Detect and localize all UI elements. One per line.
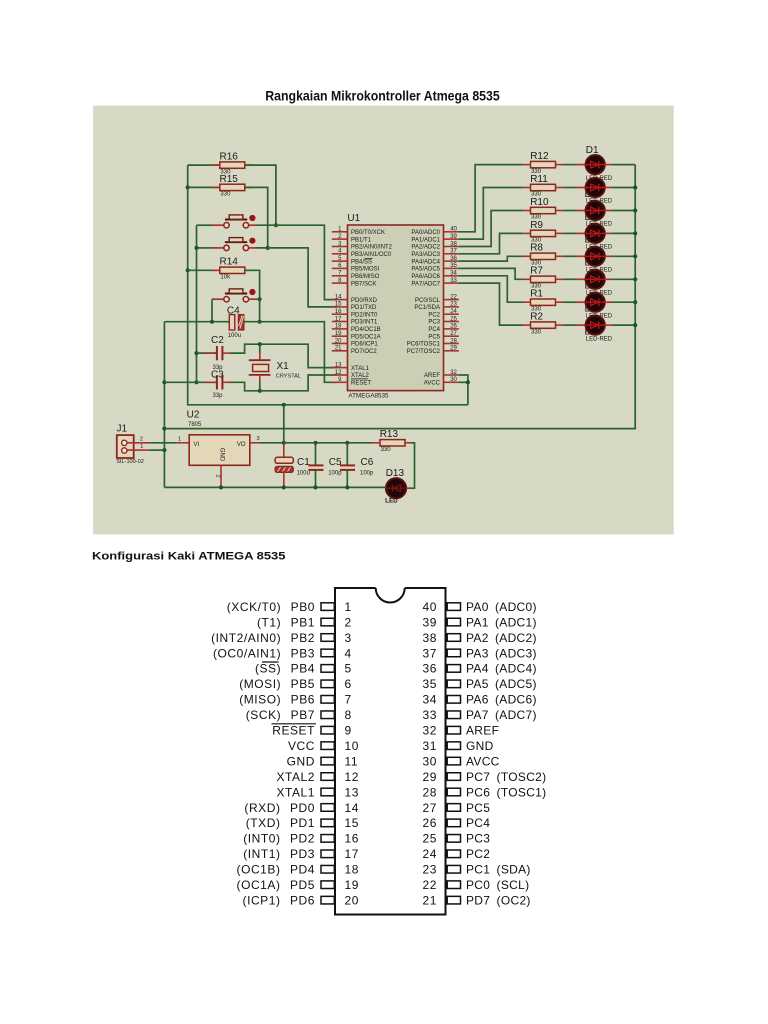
U1 pin 17 stub bbox=[332, 321, 348, 323]
label C3 bbox=[211, 370, 224, 381]
svg-text:40: 40 bbox=[422, 600, 437, 614]
pin number 3 bbox=[338, 241, 342, 247]
value 330 of R10 bbox=[531, 215, 542, 221]
svg-text:1: 1 bbox=[140, 444, 143, 450]
push button SW2 bbox=[224, 238, 256, 251]
value SIL-100-02 of J1 bbox=[116, 459, 144, 465]
DIP pin 24 row: PC2 bbox=[422, 847, 490, 861]
label X1 bbox=[277, 361, 290, 372]
label D4 (behind LED) bbox=[585, 235, 598, 246]
wire U1 pin 37 to R9 bbox=[459, 233, 523, 253]
wire D6 anode stub bbox=[576, 278, 586, 280]
pin name PB0/T0/XCK bbox=[351, 230, 385, 236]
wire ground left vertical bbox=[163, 322, 165, 488]
wire U1 pin 38 to R10 bbox=[459, 211, 523, 247]
pin name PA6/ADC6 bbox=[411, 274, 440, 280]
svg-text:XTAL1: XTAL1 bbox=[276, 785, 315, 799]
svg-text:(OC1B) PD4: (OC1B) PD4 bbox=[237, 863, 315, 877]
pin number 36 bbox=[450, 256, 457, 262]
pin number 2 of J1 bbox=[140, 437, 143, 443]
DIP pin 8 row: (SCK) PB7 bbox=[246, 708, 352, 722]
U1 pin 40 stub bbox=[444, 231, 459, 233]
wire D8 to LED bus bbox=[613, 324, 636, 326]
svg-text:13: 13 bbox=[345, 785, 360, 799]
wire U1 pin 36 to R8 bbox=[459, 256, 523, 261]
wire D2 anode stub bbox=[576, 187, 586, 189]
wire U1 pin 34 to R1 bbox=[459, 276, 523, 302]
wire button2 left bbox=[197, 247, 213, 249]
value 100u of C4 bbox=[228, 333, 241, 339]
pin name PA4/ADC4 bbox=[411, 259, 440, 265]
wire D3 cathode stub bbox=[605, 210, 613, 212]
DIP pin 23 row: PC1 (SDA) bbox=[422, 863, 530, 877]
wire R16 right down to button 1 node bbox=[245, 165, 276, 225]
svg-text:PC4: PC4 bbox=[466, 816, 490, 830]
svg-text:27: 27 bbox=[422, 801, 437, 815]
pin name XTAL2 bbox=[351, 373, 370, 379]
pin number 32 bbox=[450, 370, 457, 376]
DIP pin 27 row: PC5 bbox=[422, 801, 490, 815]
junction AVCC bbox=[466, 380, 470, 384]
svg-text:100p: 100p bbox=[328, 471, 342, 477]
U1 pin 32 stub bbox=[444, 374, 459, 376]
wire button3 right stub bbox=[249, 298, 256, 300]
junction R15 / button2 wire bbox=[266, 246, 270, 250]
DIP pin 37 row: PA3 (ADC3) bbox=[422, 646, 536, 660]
svg-text:11: 11 bbox=[345, 754, 359, 768]
U1 pin 34 stub bbox=[444, 275, 459, 277]
svg-text:C6: C6 bbox=[361, 457, 374, 468]
label R13 bbox=[380, 429, 399, 440]
wire button1 to PD0 pin14 bbox=[257, 225, 338, 299]
wire D1 cathode stub bbox=[605, 164, 613, 166]
pin name PD2/INT0 bbox=[351, 312, 378, 318]
pin name PB6/MISO bbox=[351, 274, 380, 280]
svg-text:PD6/ICP1: PD6/ICP1 bbox=[351, 342, 378, 348]
pin name PA3/ADC3 bbox=[411, 252, 440, 258]
pin number 26 bbox=[450, 324, 457, 330]
svg-text:VCC: VCC bbox=[288, 739, 315, 753]
svg-text:33: 33 bbox=[422, 708, 437, 722]
svg-text:GND: GND bbox=[219, 448, 225, 462]
svg-text:PB0/T0/XCK: PB0/T0/XCK bbox=[351, 230, 385, 236]
value 100p of C5 bbox=[328, 471, 342, 477]
pin name PD6/ICP1 bbox=[351, 342, 378, 348]
value 330 of R1 bbox=[531, 306, 542, 312]
svg-text:PC7 (TOSC2): PC7 (TOSC2) bbox=[466, 770, 546, 784]
DIP pin 12 row: XTAL2 bbox=[276, 770, 359, 784]
pin number 22 bbox=[450, 294, 457, 300]
svg-text:R13: R13 bbox=[380, 429, 399, 440]
pin name PD7/OC2 bbox=[351, 349, 377, 355]
value 330 of R11 bbox=[531, 192, 542, 198]
junction buttons rail / button2 bbox=[194, 246, 198, 250]
svg-text:(T1) PB1: (T1) PB1 bbox=[257, 615, 315, 629]
value LED of D13 bbox=[385, 497, 398, 504]
wire D1 anode stub bbox=[576, 164, 586, 166]
label R11 bbox=[530, 174, 548, 185]
pin number 30 bbox=[450, 377, 457, 383]
pin name PC3 bbox=[428, 320, 440, 326]
wire R7 to D6 bbox=[563, 278, 576, 280]
svg-text:31: 31 bbox=[422, 739, 437, 753]
value 100p of C6 bbox=[360, 471, 374, 477]
pin number 16 bbox=[335, 309, 342, 315]
wire button2 right stub bbox=[249, 247, 257, 249]
svg-text:(INT1) PD3: (INT1) PD3 bbox=[243, 847, 315, 861]
svg-text:12: 12 bbox=[335, 370, 342, 376]
pin number 1 of J1 bbox=[140, 444, 143, 450]
svg-text:16: 16 bbox=[345, 832, 360, 846]
svg-text:25: 25 bbox=[450, 316, 457, 322]
svg-text:R2: R2 bbox=[530, 312, 543, 323]
DIP pin 10 row: VCC bbox=[288, 739, 359, 753]
pin name PB7/SCK bbox=[351, 281, 376, 287]
DIP pin 22 row: PC0 (SCL) bbox=[422, 878, 529, 892]
capacitor C1 bbox=[275, 443, 293, 488]
resistor R15 bbox=[212, 184, 253, 190]
LED D2 bbox=[586, 178, 605, 197]
capacitor C4 bbox=[229, 315, 244, 330]
svg-text:PC1 (SDA): PC1 (SDA) bbox=[466, 863, 531, 877]
svg-text:X1: X1 bbox=[277, 361, 290, 372]
svg-text:J1: J1 bbox=[117, 423, 128, 434]
svg-text:LED-RED: LED-RED bbox=[586, 336, 613, 342]
resistor R13 bbox=[372, 440, 413, 446]
resistor R7 bbox=[523, 276, 564, 282]
DIP pin 39 row: PA1 (ADC1) bbox=[422, 615, 536, 629]
junction ground / U2 GND bbox=[219, 485, 223, 489]
DIP pin 32 row: AREF bbox=[422, 724, 499, 738]
pin name PC0/SCL bbox=[415, 298, 441, 304]
svg-text:17: 17 bbox=[345, 847, 360, 861]
pin name PA5/ADC5 bbox=[411, 267, 440, 273]
svg-text:AREF: AREF bbox=[424, 373, 440, 379]
pin number 14 bbox=[335, 294, 342, 300]
wire D5 cathode stub bbox=[605, 255, 613, 257]
wire R16 left bbox=[188, 164, 220, 166]
U1 pin 9 stub bbox=[332, 381, 348, 383]
capacitor C2 bbox=[205, 346, 231, 360]
pin number 38 bbox=[450, 241, 457, 247]
DIP pin 17 row: (INT1) PD3 bbox=[243, 847, 359, 861]
svg-text:PC5: PC5 bbox=[466, 801, 490, 815]
DIP pin 18 row: (OC1B) PD4 bbox=[237, 863, 360, 877]
svg-text:PC0 (SCL): PC0 (SCL) bbox=[466, 878, 529, 892]
pin name PB1/T1 bbox=[351, 237, 372, 243]
svg-text:20: 20 bbox=[345, 893, 360, 907]
wire R15 left bbox=[188, 186, 220, 188]
DIP pin 21 row: PD7 (OC2) bbox=[422, 893, 530, 907]
junction LED bus bbox=[633, 231, 637, 235]
push button SW1 bbox=[224, 215, 256, 228]
svg-text:R1: R1 bbox=[530, 289, 543, 300]
overline SS bbox=[365, 258, 373, 260]
label D1 bbox=[586, 145, 599, 156]
pin number 17 bbox=[335, 316, 342, 322]
junction VO rail / C5 bbox=[313, 441, 317, 445]
DIP pin 25 row: PC3 bbox=[422, 832, 490, 846]
wire C2 left bbox=[197, 352, 217, 354]
svg-text:(SCK) PB7: (SCK) PB7 bbox=[246, 708, 315, 722]
label D2 (behind LED) bbox=[585, 189, 598, 200]
svg-text:PA4 (ADC4): PA4 (ADC4) bbox=[466, 662, 537, 676]
wire R15 right down to button 2 node bbox=[245, 187, 268, 248]
label J1 bbox=[117, 423, 128, 434]
wire D6 cathode stub bbox=[605, 278, 613, 280]
pin number 19 bbox=[335, 331, 342, 337]
DIP pin 19 row: (OC1A) PD5 bbox=[237, 878, 360, 892]
U1 pin 29 stub bbox=[444, 350, 459, 352]
U1 pin 25 stub bbox=[444, 321, 459, 323]
label C4 bbox=[227, 306, 240, 317]
svg-text:38: 38 bbox=[450, 241, 457, 247]
svg-text:35: 35 bbox=[450, 263, 457, 269]
wire D4 anode stub bbox=[576, 232, 586, 234]
svg-text:100u: 100u bbox=[228, 333, 241, 339]
svg-text:26: 26 bbox=[450, 324, 457, 330]
resistor R2 bbox=[523, 322, 564, 328]
LED D8 bbox=[586, 316, 605, 335]
DIP pin 31 row: GND bbox=[422, 739, 493, 753]
value 330 of R12 bbox=[531, 169, 542, 175]
J1 pin 1 stub bbox=[127, 449, 149, 451]
DIP pin 2 row: (T1) PB1 bbox=[257, 615, 352, 629]
U1 pin 30 stub bbox=[444, 381, 459, 383]
svg-text:32: 32 bbox=[422, 724, 437, 738]
junction VO rail / C1 bbox=[282, 441, 286, 445]
svg-text:XTAL2: XTAL2 bbox=[276, 770, 315, 784]
svg-text:14: 14 bbox=[335, 294, 342, 300]
DIP pin 6 row: (MOSI) PB5 bbox=[239, 677, 352, 691]
junction VCC rail / 7805 output node bbox=[282, 403, 286, 407]
svg-text:17: 17 bbox=[335, 316, 342, 322]
svg-text:ATMEGA8535: ATMEGA8535 bbox=[348, 393, 389, 400]
svg-text:24: 24 bbox=[450, 309, 457, 315]
label D13 bbox=[386, 468, 405, 479]
label D3 (behind LED) bbox=[585, 212, 598, 223]
svg-text:PC3: PC3 bbox=[466, 832, 490, 846]
capacitor C3 bbox=[205, 375, 231, 389]
DIP pin 28 row: PC6 (TOSC1) bbox=[422, 785, 546, 799]
pin name AREF bbox=[424, 373, 440, 379]
U1 pin 24 stub bbox=[444, 313, 459, 315]
svg-text:PC1/SDA: PC1/SDA bbox=[414, 305, 440, 311]
wire R14 right down to C4 node bbox=[245, 270, 260, 321]
label R16 bbox=[220, 152, 239, 163]
U2 pin 3 stub bbox=[250, 442, 260, 444]
DIP pin 34 row: PA6 (ADC6) bbox=[422, 693, 536, 707]
wire D6 to LED bus bbox=[613, 278, 636, 280]
svg-text:1: 1 bbox=[178, 436, 181, 442]
svg-text:20: 20 bbox=[335, 338, 342, 344]
wire button2 left stub bbox=[212, 247, 224, 249]
DIP pin 38 row: PA2 (ADC2) bbox=[422, 631, 536, 645]
svg-text:C5: C5 bbox=[329, 457, 342, 468]
svg-text:PD4/OC1B: PD4/OC1B bbox=[351, 327, 381, 333]
value LED-RED of D1 bbox=[586, 176, 613, 182]
junction crystal top bbox=[258, 342, 262, 346]
label R7 bbox=[530, 266, 543, 277]
wire U1 pin 33 to R2 bbox=[459, 283, 523, 325]
pin number 2 bbox=[338, 234, 342, 240]
svg-text:9: 9 bbox=[345, 724, 352, 738]
svg-text:34: 34 bbox=[450, 271, 457, 277]
wire R10 to D3 bbox=[563, 210, 576, 212]
U1 pin 22 stub bbox=[444, 299, 459, 301]
DIP pin 29 row: PC7 (TOSC2) bbox=[422, 770, 546, 784]
wire R9 to D4 bbox=[563, 232, 576, 234]
wire C4 node to RESET pin9 bbox=[260, 322, 337, 383]
wire D7 to LED bus bbox=[613, 301, 636, 303]
svg-text:(TXD) PD1: (TXD) PD1 bbox=[246, 816, 315, 830]
svg-text:PC5: PC5 bbox=[428, 334, 440, 340]
U1 pin 8 stub bbox=[332, 282, 348, 284]
svg-text:PA0 (ADC0): PA0 (ADC0) bbox=[466, 600, 537, 614]
label D8 (behind LED) bbox=[585, 326, 598, 337]
DIP pin 5 row: (SS) PB4 bbox=[255, 662, 352, 676]
pin number 7 bbox=[338, 271, 342, 277]
svg-text:PA4/ADC4: PA4/ADC4 bbox=[411, 259, 440, 265]
svg-text:Rangkaian Mikrokontroller Atme: Rangkaian Mikrokontroller Atmega 8535 bbox=[265, 88, 500, 103]
svg-text:PA6/ADC6: PA6/ADC6 bbox=[411, 274, 440, 280]
svg-text:PA6 (ADC6): PA6 (ADC6) bbox=[466, 693, 537, 707]
U1 pin 1 stub bbox=[332, 231, 348, 233]
U1 pin 4 stub bbox=[332, 253, 348, 255]
wire R1 to D7 bbox=[563, 301, 576, 303]
pin name PC7/TOSC2 bbox=[407, 349, 441, 355]
svg-text:33: 33 bbox=[450, 278, 457, 284]
pin number 2 of U2 bbox=[215, 475, 221, 478]
pin name PC6/TOSC1 bbox=[407, 342, 441, 348]
svg-text:16: 16 bbox=[335, 309, 342, 315]
svg-text:C3: C3 bbox=[211, 370, 224, 381]
svg-text:(MOSI) PB5: (MOSI) PB5 bbox=[239, 677, 315, 691]
wire D13 cathode stub bbox=[406, 487, 409, 489]
resistor R14 bbox=[212, 267, 253, 273]
svg-text:(ICP1) PD6: (ICP1) PD6 bbox=[243, 893, 315, 907]
value 330 of R16 bbox=[220, 169, 231, 175]
svg-text:(INT2/AIN0) PB2: (INT2/AIN0) PB2 bbox=[211, 631, 315, 645]
pin number 28 bbox=[450, 338, 457, 344]
svg-text:35: 35 bbox=[422, 677, 437, 691]
svg-text:18: 18 bbox=[335, 324, 342, 330]
capacitor C5 bbox=[308, 443, 323, 488]
svg-text:GND: GND bbox=[466, 739, 494, 753]
svg-text:LED: LED bbox=[385, 497, 398, 504]
pin number 1 bbox=[338, 227, 342, 233]
svg-text:VO: VO bbox=[237, 442, 246, 448]
DIP pin 16 row: (INT0) PD2 bbox=[243, 832, 359, 846]
DIP-40 package body ATMEGA8535 bbox=[335, 588, 446, 915]
pin number 18 bbox=[335, 324, 342, 330]
wire D5 anode stub bbox=[576, 255, 586, 257]
junction R14 rail / C4 wire bbox=[258, 320, 262, 324]
junction ground vertical / LED return rail bbox=[162, 427, 166, 431]
svg-text:330: 330 bbox=[220, 192, 231, 198]
pin number 4 bbox=[338, 249, 342, 255]
value LED-RED of D5 bbox=[586, 268, 613, 274]
U1 pin 35 stub bbox=[444, 267, 459, 269]
svg-text:PB5/MOSI: PB5/MOSI bbox=[351, 267, 380, 273]
U1 pin 39 stub bbox=[444, 238, 459, 240]
wire button3 left bbox=[212, 298, 215, 300]
U1 pin 21 stub bbox=[332, 350, 348, 352]
pin name PB4/SS bbox=[351, 259, 372, 265]
junction LED bus bbox=[633, 185, 637, 189]
svg-text:R11: R11 bbox=[530, 174, 548, 185]
svg-text:33p: 33p bbox=[213, 393, 224, 399]
svg-text:15: 15 bbox=[335, 302, 342, 308]
U1 pin 16 stub bbox=[332, 313, 348, 315]
wire C4 right bbox=[244, 321, 260, 323]
DIP pin 30 row: AVCC bbox=[422, 754, 499, 768]
svg-text:3: 3 bbox=[257, 436, 260, 442]
svg-text:PB3/AIN1/OC0: PB3/AIN1/OC0 bbox=[351, 252, 392, 258]
pin number 35 bbox=[450, 263, 457, 269]
svg-text:GND: GND bbox=[287, 754, 315, 768]
wire button3 left stub bbox=[215, 298, 224, 300]
junction VCC rail / R15 bbox=[186, 185, 190, 189]
overline RESET on DIP pin 9 bbox=[272, 723, 317, 725]
svg-text:100u: 100u bbox=[297, 471, 310, 477]
wire AVCC to AREF vertical bbox=[459, 381, 468, 383]
svg-text:7805: 7805 bbox=[188, 422, 202, 428]
svg-text:30: 30 bbox=[450, 377, 457, 383]
svg-text:XTAL1: XTAL1 bbox=[351, 366, 370, 372]
wire button2 to PD1 pin15 bbox=[257, 248, 338, 307]
svg-text:PD1/TXD: PD1/TXD bbox=[351, 305, 377, 311]
pin number 39 bbox=[450, 234, 457, 240]
svg-text:PC7/TOSC2: PC7/TOSC2 bbox=[407, 349, 441, 355]
svg-text:38: 38 bbox=[422, 631, 437, 645]
U1 pin 12 stub bbox=[332, 374, 348, 376]
svg-text:PD0/RXD: PD0/RXD bbox=[351, 298, 378, 304]
svg-text:5: 5 bbox=[345, 662, 352, 676]
pin name PA0/ADC0 bbox=[411, 230, 440, 236]
pin name PB3/AIN1/OC0 bbox=[351, 252, 392, 258]
wire 7805 VO rail to R13 bbox=[260, 442, 372, 444]
svg-text:21: 21 bbox=[422, 893, 437, 907]
svg-text:3: 3 bbox=[345, 631, 352, 645]
node VCC vertical from VO rail up to AREF rail bbox=[283, 405, 285, 443]
svg-text:15: 15 bbox=[345, 816, 360, 830]
pin number 12 bbox=[335, 370, 342, 376]
overline SS on DIP pin 5 bbox=[262, 661, 279, 663]
DIP pin 14 row: (RXD) PD0 bbox=[244, 801, 359, 815]
push button SW3 bbox=[224, 289, 256, 302]
pin number 37 bbox=[450, 249, 457, 255]
svg-text:23: 23 bbox=[450, 302, 457, 308]
junction ground / C5 bbox=[313, 485, 317, 489]
label C2 bbox=[211, 335, 224, 346]
wire button1 left bbox=[197, 224, 213, 226]
wire U1 pin 40 to R12 bbox=[459, 165, 523, 232]
svg-text:21: 21 bbox=[335, 346, 342, 352]
value LED-RED of D2 bbox=[586, 199, 613, 205]
wire D8 anode stub bbox=[576, 324, 586, 326]
svg-text:2: 2 bbox=[345, 615, 352, 629]
svg-text:(MISO) PB6: (MISO) PB6 bbox=[239, 693, 315, 707]
pin number 1 of U2 bbox=[178, 436, 181, 442]
pin name VI of U2 bbox=[194, 442, 200, 448]
pin number 5 bbox=[338, 256, 342, 262]
junction crystal bottom bbox=[258, 389, 262, 393]
junction C4 wire / button3 bbox=[210, 320, 214, 324]
svg-text:PC2: PC2 bbox=[428, 312, 440, 318]
value 33p of C2 bbox=[213, 365, 224, 371]
svg-text:PB2/AIN0/INT2: PB2/AIN0/INT2 bbox=[351, 245, 393, 251]
